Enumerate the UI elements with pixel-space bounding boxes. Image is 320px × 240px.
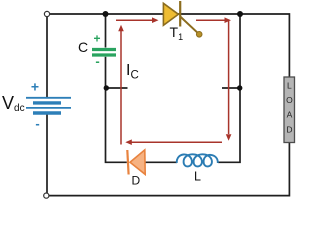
wire diode to inductor (145, 161, 177, 163)
battery Vdc plates (26, 98, 71, 113)
wire capacitor branch lower (106, 57, 127, 163)
svg-text:A: A (287, 110, 293, 120)
current arrow left segment (up) (120, 31, 122, 145)
svg-text:IC: IC (126, 62, 139, 82)
thyristor T1 triangle (163, 3, 178, 25)
wire left vertical lower (source to bottom rail) (46, 115, 48, 194)
wire top rail (49, 14, 289, 77)
wire right bottom vertical from load (49, 142, 290, 196)
svg-text:D: D (132, 174, 141, 188)
svg-text:T1: T1 (170, 24, 184, 42)
svg-text:C: C (78, 39, 88, 55)
current arrow right segment (down) (228, 21, 230, 135)
inductor L coil (177, 154, 218, 166)
current arrow top-right segment (196, 19, 227, 21)
thyristor T1 gate terminal dot (196, 32, 202, 38)
svg-text:L: L (287, 81, 292, 91)
svg-text:L: L (194, 170, 201, 184)
svg-text:-: - (95, 54, 99, 69)
node open terminal bottom-left (44, 193, 49, 198)
LOAD box (284, 77, 295, 143)
svg-text:D: D (286, 125, 292, 135)
node junction dot left top (103, 11, 109, 17)
node stub right with junction dot (222, 87, 240, 89)
thyristor T1 cathode bar (179, 1, 181, 27)
capacitor C plates (92, 50, 116, 56)
svg-text:+: + (31, 79, 39, 95)
thyristor T1 gate lead (180, 17, 199, 34)
node stub left with junction dot (106, 87, 128, 89)
svg-text:-: - (35, 116, 39, 131)
diode D triangle (130, 150, 145, 175)
LOAD text (286, 81, 293, 135)
current arrow bottom segment (left) (130, 141, 222, 143)
diode D cathode bar (127, 150, 128, 175)
node open terminal top-left (44, 11, 49, 16)
node junction dot right top (237, 11, 243, 17)
wire capacitor branch upper (105, 14, 107, 48)
svg-text:O: O (286, 95, 293, 105)
wire right inner vertical (218, 14, 240, 162)
current arrow top-left segment (116, 19, 154, 21)
svg-text:Vdc: Vdc (2, 93, 25, 114)
svg-text:+: + (93, 32, 100, 46)
wire left vertical upper (source to top rail) (46, 17, 48, 98)
